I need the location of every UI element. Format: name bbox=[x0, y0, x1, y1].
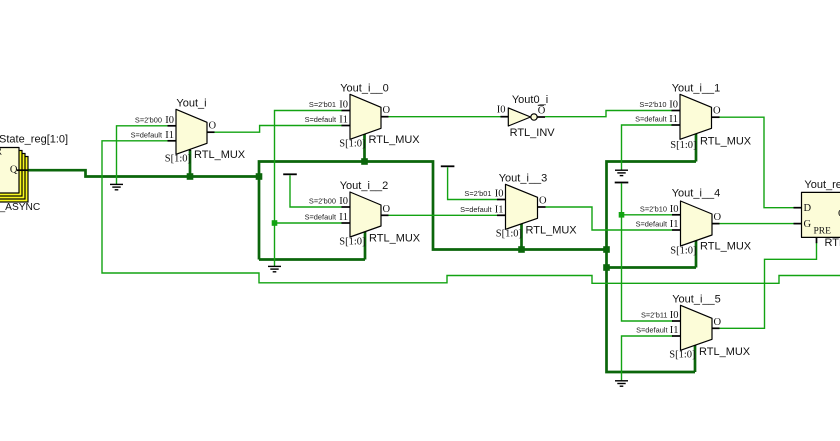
wire bus vertical left bbox=[259, 162, 607, 260]
mux Yout_i__5 bbox=[636, 293, 751, 360]
svg-text:PRE: PRE bbox=[814, 227, 832, 237]
svg-text:Yout_i__1: Yout_i__1 bbox=[672, 82, 721, 94]
svg-text:I1: I1 bbox=[339, 212, 348, 223]
wire S riser Yout_i__1 bbox=[695, 128, 698, 162]
mux Yout_i__2 bbox=[305, 180, 421, 248]
svg-text:I0: I0 bbox=[339, 196, 348, 207]
wire net V1 to Yout_i__2 I0 bbox=[290, 175, 342, 207]
mux Yout_i bbox=[131, 97, 246, 164]
wire bus Q bbox=[28, 170, 259, 176]
svg-text:S=default: S=default bbox=[635, 115, 666, 124]
wire S riser Yout_i__5 bbox=[694, 340, 697, 373]
power V3 bbox=[615, 182, 629, 184]
svg-text:D: D bbox=[804, 203, 812, 214]
svg-text:O: O bbox=[714, 317, 722, 328]
mux Yout_i__4 bbox=[636, 188, 752, 257]
junction net at x621 y214 bbox=[619, 212, 625, 218]
svg-text:S[1:0]: S[1:0] bbox=[496, 229, 522, 240]
wire bus right vertical bbox=[607, 162, 697, 373]
svg-text:S=2'b10: S=2'b10 bbox=[640, 205, 667, 214]
svg-text:I1: I1 bbox=[670, 219, 679, 230]
ground G4 bbox=[615, 381, 628, 386]
junction bus at Yout_i S bbox=[187, 173, 194, 180]
svg-text:Yout_i: Yout_i bbox=[176, 97, 206, 109]
junction net at x274 y223 bbox=[272, 220, 278, 226]
wire net Yout_i__5 I1 to GND4 bbox=[622, 336, 674, 380]
svg-text:Yout0_i: Yout0_i bbox=[512, 94, 548, 106]
svg-text:O: O bbox=[714, 212, 722, 223]
svg-text:I1: I1 bbox=[339, 115, 348, 126]
svg-text:I0: I0 bbox=[669, 100, 678, 111]
svg-text:I0: I0 bbox=[495, 189, 504, 200]
svg-text:S=2'b10: S=2'b10 bbox=[639, 100, 666, 109]
svg-text:O: O bbox=[539, 196, 547, 207]
wire S riser Yout_i bbox=[189, 144, 192, 177]
svg-text:S[1:0]: S[1:0] bbox=[339, 139, 365, 150]
svg-text:I1: I1 bbox=[495, 204, 504, 215]
svg-text:Yout_i__3: Yout_i__3 bbox=[499, 172, 548, 184]
wire net Yout_i O to Yout_i__0 I1 bbox=[215, 126, 343, 133]
ground G1 bbox=[110, 184, 123, 189]
mux Yout_i__1 bbox=[635, 82, 752, 151]
register State_reg[1:0] bbox=[0, 134, 68, 214]
svg-text:RTL_MUX: RTL_MUX bbox=[700, 136, 752, 148]
svg-text:S[1:0]: S[1:0] bbox=[165, 154, 191, 165]
svg-text:State_reg[1:0]: State_reg[1:0] bbox=[0, 134, 68, 146]
svg-text:RTL_MUX: RTL_MUX bbox=[700, 241, 752, 253]
wire net V2 to Yout_i__3 I0 bbox=[448, 167, 498, 199]
wire bus bottom to mux2 bbox=[259, 258, 365, 261]
svg-text:O: O bbox=[383, 204, 391, 215]
wire net Yout_i__2 O to Yout_i__3 I1 bbox=[389, 214, 498, 216]
svg-text:Yout_i__5: Yout_i__5 bbox=[672, 293, 721, 305]
wire bus branch to mux4 bbox=[607, 266, 697, 269]
wire net feedback Yout_i I1 bbox=[102, 141, 840, 283]
svg-text:I0: I0 bbox=[339, 100, 348, 111]
svg-text:I1: I1 bbox=[670, 325, 679, 336]
svg-text:S[1:0]: S[1:0] bbox=[670, 246, 696, 257]
svg-text:O: O bbox=[538, 106, 546, 117]
svg-text:_ASYNC: _ASYNC bbox=[0, 202, 40, 213]
svg-text:O: O bbox=[713, 106, 721, 117]
power V1 bbox=[283, 173, 297, 175]
svg-text:Yout_i__4: Yout_i__4 bbox=[672, 188, 721, 200]
wire S riser Yout_i__0 bbox=[363, 129, 366, 162]
wire net Yout_i__1 I1 to GND3 bbox=[622, 125, 673, 170]
wire net Yout_i__4 O to latch G bbox=[720, 223, 794, 225]
svg-text:Yout_i__0: Yout_i__0 bbox=[340, 82, 389, 94]
svg-text:S=2'b01: S=2'b01 bbox=[309, 100, 336, 109]
svg-text:I1: I1 bbox=[669, 114, 678, 125]
svg-text:S=default: S=default bbox=[636, 220, 667, 229]
ground G3 bbox=[615, 170, 628, 175]
latch Yout_reg bbox=[794, 179, 840, 249]
svg-text:RTL_MUX: RTL_MUX bbox=[369, 233, 421, 245]
svg-text:O: O bbox=[383, 105, 391, 116]
svg-text:Yout_reg: Yout_reg bbox=[804, 179, 840, 191]
svg-text:S=2'b11: S=2'b11 bbox=[641, 311, 668, 320]
svg-text:S=2'b01: S=2'b01 bbox=[464, 189, 491, 198]
svg-text:S=default: S=default bbox=[460, 205, 491, 214]
svg-text:G: G bbox=[804, 219, 812, 230]
junction bus at x259 bbox=[256, 173, 263, 180]
wire net GND2 to Yout_i__0 I0 and Yout_i__2 I1 bbox=[275, 111, 343, 267]
mux Yout_i__0 bbox=[305, 82, 421, 149]
svg-text:S[1:0]: S[1:0] bbox=[669, 350, 695, 361]
ground G2 bbox=[268, 266, 281, 271]
wire net Yout_i__5 O to latch PRE bbox=[720, 243, 817, 329]
svg-text:S=default: S=default bbox=[131, 131, 162, 140]
inverter Yout0_i bbox=[497, 94, 556, 139]
svg-text:I0: I0 bbox=[497, 105, 506, 116]
svg-text:R: R bbox=[0, 147, 2, 158]
wire net GND to Yout_i I0 bbox=[117, 126, 169, 184]
svg-text:I1: I1 bbox=[165, 130, 174, 141]
svg-text:S=2'b00: S=2'b00 bbox=[135, 116, 162, 125]
wire S riser Yout_i__3 bbox=[520, 218, 523, 250]
wire S riser Yout_i__2 bbox=[364, 226, 367, 260]
svg-text:RTL_INV: RTL_INV bbox=[510, 127, 556, 139]
svg-text:I0: I0 bbox=[165, 115, 174, 126]
wire net V3 to Yout_i__4 I0 and Yout_i__5 I0 bbox=[622, 183, 674, 321]
svg-text:S=default: S=default bbox=[636, 326, 667, 335]
svg-text:RTL_MUX: RTL_MUX bbox=[369, 134, 421, 146]
power V2 bbox=[441, 165, 455, 167]
svg-text:O: O bbox=[209, 121, 217, 132]
svg-text:Yout_i__2: Yout_i__2 bbox=[340, 180, 389, 192]
svg-text:S=2'b00: S=2'b00 bbox=[309, 197, 336, 206]
wire S riser Yout_i__4 bbox=[695, 235, 698, 268]
svg-text:I0: I0 bbox=[670, 310, 679, 321]
junction bus at Yout_i__3 S bbox=[518, 246, 525, 253]
junction bus at x606 y249 bbox=[603, 246, 610, 253]
svg-text:RTL_MUX: RTL_MUX bbox=[699, 346, 751, 358]
wire net Yout_i__1 O to latch D bbox=[720, 117, 794, 208]
wire net inverter O to Yout_i__1 I0 bbox=[545, 111, 672, 117]
junction bus at Yout_i__0 S bbox=[361, 158, 368, 165]
svg-text:RTL_LATCH: RTL_LATCH bbox=[825, 237, 840, 249]
svg-text:S[1:0]: S[1:0] bbox=[670, 140, 696, 151]
mux Yout_i__3 bbox=[460, 172, 577, 239]
svg-text:I0: I0 bbox=[670, 204, 679, 215]
svg-text:S=default: S=default bbox=[305, 115, 336, 124]
junction bus at x606 y267 bbox=[603, 264, 610, 271]
wire net Yout_i__0 O to inverter bbox=[389, 116, 501, 118]
wire net Yout_i__3 O to Yout_i__4 I1 bbox=[546, 207, 673, 230]
svg-text:RTL_MUX: RTL_MUX bbox=[194, 149, 246, 161]
svg-text:RTL_MUX: RTL_MUX bbox=[526, 225, 578, 237]
svg-text:Q: Q bbox=[10, 165, 18, 176]
svg-text:S[1:0]: S[1:0] bbox=[339, 237, 365, 248]
svg-text:S=default: S=default bbox=[305, 213, 336, 222]
